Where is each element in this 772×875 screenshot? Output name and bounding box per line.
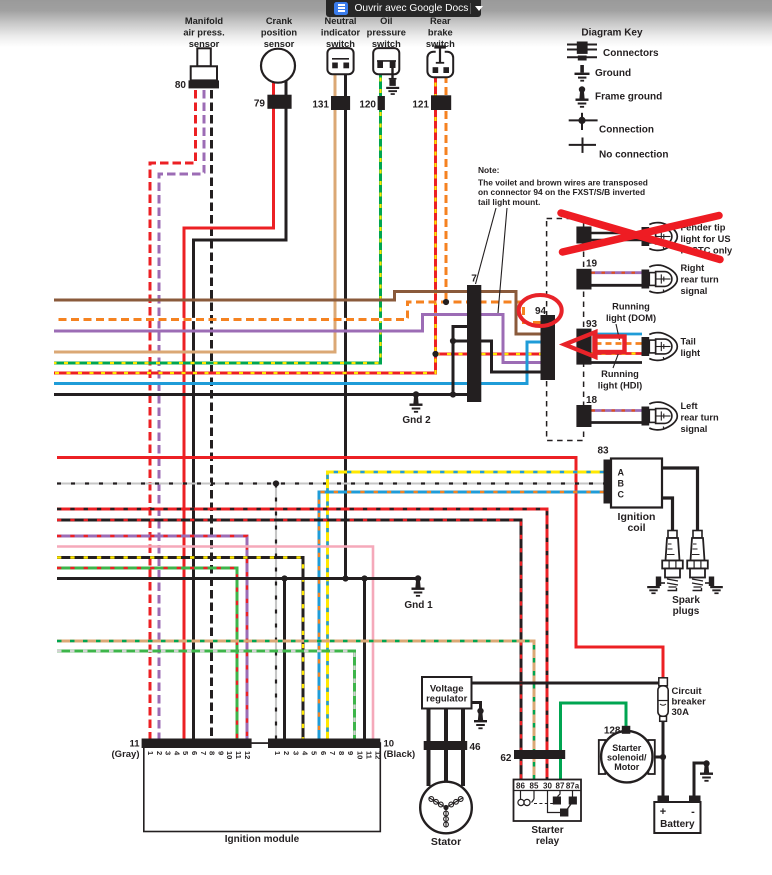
- ground voltage regulator: [477, 708, 483, 714]
- wire black ignition coil to left spark plug: [662, 498, 673, 531]
- wire black regulator to stator phase 2: [444, 708, 448, 783]
- svg-text:Connectors: Connectors: [603, 48, 659, 59]
- svg-text:9: 9: [346, 751, 355, 755]
- svg-text:signal: signal: [681, 424, 708, 434]
- svg-text:11: 11: [365, 751, 374, 759]
- svg-text:83: 83: [597, 446, 609, 457]
- wire black/yellow harness to module 10-4: [57, 558, 303, 741]
- junction orange wires: [443, 299, 449, 305]
- svg-text:coil: coil: [627, 522, 645, 534]
- wire black right turn signal: [592, 284, 643, 287]
- svg-text:Connection: Connection: [599, 124, 654, 135]
- svg-text:rear turn: rear turn: [681, 413, 720, 423]
- svg-text:4: 4: [300, 751, 309, 756]
- svg-text:(Black): (Black): [384, 749, 416, 760]
- svg-text:1: 1: [273, 751, 282, 755]
- junction black battery wire solenoid: [660, 754, 666, 760]
- wire black branch to connector 94: [453, 341, 541, 372]
- wire black fender tip light lower: [592, 239, 643, 242]
- oil switch ground plug: [391, 68, 393, 79]
- key connectors symbol: [567, 44, 597, 46]
- svg-text:7: 7: [199, 751, 208, 755]
- wire red/white manifold sensor pin1 to module 11-1: [150, 86, 196, 740]
- connector 19: [576, 269, 591, 290]
- crank position sensor: [261, 49, 295, 83]
- svg-text:Ground: Ground: [595, 68, 631, 79]
- svg-text:light (DOM): light (DOM): [606, 313, 656, 323]
- wire black neutral switch to Gnd1 bus: [344, 66, 347, 579]
- wire tan/green harness to starter relay 85: [57, 641, 534, 780]
- ignition coil U-coil box: [611, 459, 662, 508]
- svg-text:C: C: [618, 490, 625, 500]
- left rear turn signal bulb: [642, 407, 650, 426]
- svg-text:Note:: Note:: [478, 165, 499, 175]
- svg-text:Gnd 2: Gnd 2: [402, 415, 431, 426]
- note leader line to connector 94 wires: [498, 208, 507, 313]
- svg-text:relay: relay: [536, 836, 560, 847]
- voltage regulator box: [422, 677, 472, 709]
- wire violet/orange left turn signal: [592, 409, 643, 412]
- junction black Gnd1 pin11: [361, 575, 367, 581]
- svg-text:79: 79: [254, 99, 266, 110]
- wire black Gnd1 bus to module 10-11: [363, 579, 366, 741]
- oil pressure switch: [373, 48, 399, 74]
- junction black bus conn7: [450, 391, 456, 397]
- svg-text:10: 10: [225, 751, 234, 759]
- wire black voltage regulator to circuit breaker: [472, 682, 660, 685]
- wire orange/white rear brake switch down: [445, 71, 448, 302]
- connector 11 bar: [142, 739, 252, 749]
- wire orange/white harness to connector 94: [54, 302, 541, 323]
- svg-text:-: -: [691, 806, 695, 818]
- annotation red X cross stroke 2: [563, 216, 720, 253]
- stator windings: [443, 805, 448, 810]
- svg-text:7: 7: [471, 274, 477, 285]
- svg-text:Circuit: Circuit: [672, 686, 703, 697]
- svg-text:2: 2: [155, 751, 164, 755]
- starter solenoid circle: [601, 731, 652, 782]
- wire red harness to circuit breaker: [57, 458, 663, 682]
- svg-text:Battery: Battery: [660, 819, 695, 830]
- svg-text:5: 5: [310, 751, 319, 755]
- svg-text:94: 94: [535, 306, 547, 317]
- starter solenoid brackets: [599, 740, 606, 774]
- svg-text:switch: switch: [426, 39, 455, 49]
- battery terminals: [658, 796, 670, 803]
- svg-text:The voilet and brown wires are: The voilet and brown wires are transpose…: [478, 178, 648, 188]
- wire black tail light ground: [592, 361, 643, 364]
- svg-text:Ignition module: Ignition module: [225, 834, 300, 845]
- svg-text:(Gray): (Gray): [112, 749, 140, 760]
- svg-text:solenoid/: solenoid/: [607, 753, 647, 763]
- svg-text:62: 62: [500, 753, 512, 764]
- svg-text:Neutral: Neutral: [324, 16, 356, 26]
- svg-text:tail light mount.: tail light mount.: [478, 197, 540, 207]
- wire yellow/blue ignition coil A to module 10-7: [328, 472, 605, 740]
- svg-text:No connection: No connection: [599, 150, 668, 161]
- connector 93: [576, 329, 591, 365]
- connector 120: [378, 96, 385, 110]
- key frame ground symbol: [579, 86, 585, 92]
- svg-text:87a: 87a: [566, 782, 580, 791]
- svg-text:131: 131: [312, 100, 329, 111]
- svg-text:Motor: Motor: [614, 762, 639, 772]
- connector 46: [424, 741, 468, 750]
- wire black Gnd1 bus: [57, 577, 418, 580]
- connector 10 bar: [268, 739, 380, 749]
- starter relay header line: [514, 790, 582, 792]
- svg-text:light for US: light for US: [681, 234, 731, 244]
- svg-text:87: 87: [556, 782, 565, 791]
- starter relay contact 87a: [572, 791, 574, 797]
- svg-text:12: 12: [374, 751, 383, 759]
- svg-text:9: 9: [216, 751, 225, 755]
- svg-text:Diagram Key: Diagram Key: [581, 28, 643, 39]
- svg-text:regulator: regulator: [426, 694, 467, 705]
- svg-text:7: 7: [328, 751, 337, 755]
- svg-text:Starter: Starter: [612, 743, 642, 753]
- fender tip light bulb: [642, 227, 650, 246]
- connector 128: [622, 726, 631, 734]
- starter relay contact 87: [558, 791, 561, 797]
- svg-text:4: 4: [172, 751, 181, 756]
- svg-text:Spark: Spark: [672, 595, 700, 606]
- annotation red X cross stroke 1: [561, 213, 720, 260]
- wire black fender tip light upper: [592, 232, 643, 235]
- connector 83: [604, 460, 613, 504]
- wire green starter relay 87 to solenoid 128: [561, 703, 627, 780]
- svg-text:10: 10: [384, 739, 395, 750]
- svg-text:30: 30: [543, 782, 552, 791]
- battery box: [654, 802, 700, 833]
- svg-text:8: 8: [337, 751, 346, 755]
- connector link line: [252, 742, 268, 744]
- svg-text:Manifold: Manifold: [185, 16, 224, 26]
- svg-text:Tail: Tail: [681, 337, 696, 347]
- key connection symbol: [569, 119, 598, 121]
- svg-text:+: +: [660, 806, 666, 818]
- svg-text:air press.: air press.: [183, 28, 224, 38]
- neutral indicator switch: [327, 48, 353, 74]
- junction red/yellow wires: [432, 351, 438, 357]
- annotation red arrow head: [565, 332, 596, 357]
- wire white/black branch to module 10-1: [275, 484, 277, 741]
- junction black bus Gnd2: [413, 391, 419, 397]
- starter relay coil: [520, 791, 522, 800]
- svg-text:brake: brake: [428, 28, 453, 38]
- wire tan neutral switch to left harness: [54, 66, 335, 352]
- svg-text:B: B: [618, 479, 625, 489]
- svg-text:on connector 94 on the FXST/S/: on connector 94 on the FXST/S/B inverted: [478, 187, 645, 197]
- wire violet/white manifold sensor pin2 to module 11-2: [159, 86, 204, 740]
- wire red/black harness to starter relay 86: [57, 509, 547, 780]
- wire black left turn signal: [592, 421, 643, 424]
- svg-text:Starter: Starter: [531, 825, 563, 836]
- svg-text:86: 86: [516, 782, 525, 791]
- wire black connector 7 to ground bus: [453, 327, 467, 395]
- wire violet/orange right turn signal: [592, 271, 643, 274]
- svg-text:120: 120: [359, 100, 376, 111]
- tail lamp assembly dashed box: [547, 219, 584, 441]
- connector 62: [514, 750, 565, 759]
- svg-text:Frame ground: Frame ground: [595, 92, 662, 103]
- wire black ground bus to connector 7: [54, 393, 468, 396]
- rear brake switch: [427, 52, 453, 77]
- wire blue tail light running DOM: [592, 333, 643, 336]
- fender tip light connector: [576, 227, 591, 244]
- svg-text:93: 93: [586, 319, 598, 330]
- svg-text:6: 6: [319, 751, 328, 755]
- svg-text:80: 80: [175, 80, 187, 91]
- svg-text:19: 19: [586, 259, 598, 270]
- wire green/red harness to module 11-11: [57, 568, 237, 740]
- wire red/yellow tail light brake: [592, 352, 643, 355]
- svg-text:signal: signal: [681, 286, 708, 296]
- svg-text:6: 6: [190, 751, 199, 755]
- svg-text:Left: Left: [681, 401, 698, 411]
- wire black battery minus to frame ground: [694, 763, 704, 796]
- key ground symbol: [580, 65, 584, 73]
- svg-text:3: 3: [164, 751, 173, 755]
- svg-text:128: 128: [604, 726, 621, 737]
- wire green/gray harness to module 10-10: [57, 651, 355, 740]
- key no connection symbol: [569, 144, 596, 146]
- wire red/yellow branch to connector 94: [436, 353, 541, 356]
- connector 79: [267, 95, 291, 109]
- svg-text:8: 8: [208, 751, 217, 755]
- starter relay contact 30: [548, 791, 561, 813]
- svg-text:2: 2: [282, 751, 291, 755]
- svg-text:1: 1: [146, 751, 155, 755]
- circuit breaker: [659, 678, 668, 686]
- wire violet harness to connector 94: [54, 315, 541, 363]
- note leader line to connector 7: [476, 208, 497, 284]
- svg-text:pressure: pressure: [367, 28, 406, 38]
- stator circle: [420, 782, 472, 834]
- svg-text:Crank: Crank: [266, 16, 293, 26]
- svg-text:Gnd 1: Gnd 1: [404, 600, 433, 611]
- wire black circuit breaker to battery plus: [662, 720, 665, 796]
- svg-text:11: 11: [129, 739, 140, 750]
- ground Gnd 1: [415, 575, 421, 581]
- svg-text:12: 12: [243, 751, 252, 759]
- svg-text:breaker: breaker: [672, 697, 707, 708]
- svg-text:85: 85: [530, 782, 539, 791]
- svg-text:position: position: [261, 28, 297, 38]
- svg-text:10: 10: [355, 751, 364, 759]
- wire red crank sensor to module 11-5: [184, 80, 274, 740]
- wire blue harness to connector 94: [54, 342, 541, 384]
- svg-text:plugs: plugs: [673, 606, 700, 617]
- wire black/red harness to starter relay 30: [57, 520, 521, 780]
- svg-text:A: A: [618, 468, 625, 478]
- svg-text:switch: switch: [372, 39, 401, 49]
- connector 18: [576, 405, 591, 427]
- spark plug left: [668, 531, 677, 539]
- svg-text:Rear: Rear: [430, 16, 451, 26]
- tail light bulb: [642, 337, 650, 356]
- connector 80: [189, 80, 220, 88]
- wire pink harness to module 10-12: [57, 547, 373, 741]
- svg-text:light: light: [681, 348, 701, 358]
- right rear turn signal bulb: [642, 270, 650, 289]
- wire violet/red harness to module 11-12: [57, 536, 247, 740]
- ground battery negative: [703, 760, 709, 766]
- wire black crank sensor to module 11-6: [194, 79, 287, 740]
- svg-text:3: 3: [291, 751, 300, 755]
- wire white/black harness to ignition coil B: [57, 482, 604, 484]
- spark plug right: [693, 531, 702, 539]
- svg-text:Running: Running: [601, 369, 639, 379]
- wire green/yellow oil switch to left harness: [54, 66, 381, 363]
- junction black conn7/94: [450, 338, 456, 344]
- svg-text:sensor: sensor: [189, 39, 220, 49]
- wire black regulator to stator phase 1: [427, 708, 431, 786]
- svg-text:30A: 30A: [672, 707, 690, 718]
- wire black solenoid to battery wire: [650, 756, 663, 759]
- junction black Gnd1 neutral: [342, 575, 348, 581]
- ignition module box: [144, 743, 380, 832]
- wire blue/orange ignition coil C to module 10-6: [319, 492, 604, 740]
- svg-text:Running: Running: [612, 302, 650, 312]
- wire black ignition coil to right spark plug: [662, 468, 698, 531]
- wire black regulator to stator phase 3: [461, 708, 465, 786]
- svg-text:46: 46: [470, 742, 482, 753]
- annotation red arrow shaft: [595, 337, 625, 353]
- svg-text:rear turn: rear turn: [681, 275, 720, 285]
- svg-text:Right: Right: [681, 263, 705, 273]
- svg-text:sensor: sensor: [264, 39, 295, 49]
- wire red/yellow rear brake switch to left harness: [54, 71, 436, 373]
- starter relay armature dashed link: [534, 803, 558, 805]
- connector 94: [541, 315, 556, 380]
- wire brown harness to connector 94: [54, 292, 541, 335]
- wire black Gnd1 bus to module 10-2: [283, 579, 286, 741]
- svg-text:18: 18: [586, 395, 598, 406]
- ground Gnd 2: [413, 391, 419, 397]
- manifold air pressure sensor: [197, 48, 211, 66]
- wire orange/white tail light: [592, 342, 643, 345]
- oil switch ground symbol: [386, 87, 399, 89]
- connector 131: [331, 96, 350, 110]
- svg-text:Stator: Stator: [431, 836, 461, 848]
- svg-text:indicator: indicator: [321, 28, 361, 38]
- wire black/white manifold sensor pin3 to module 11-8: [210, 86, 213, 740]
- svg-text:5: 5: [181, 751, 190, 755]
- connector 7: [467, 285, 481, 402]
- connector 121: [431, 95, 451, 110]
- junction black Gnd1 pin2: [281, 575, 287, 581]
- svg-text:Oil: Oil: [380, 16, 392, 26]
- svg-text:light (HDI): light (HDI): [598, 381, 642, 391]
- starter relay box: [514, 780, 582, 822]
- svg-text:121: 121: [412, 100, 429, 111]
- junction white/black wire: [273, 480, 279, 486]
- svg-text:switch: switch: [326, 39, 355, 49]
- wire black regulator case ground: [472, 703, 481, 711]
- svg-text:11: 11: [234, 751, 243, 759]
- annotation red ellipse around 94: [519, 295, 562, 326]
